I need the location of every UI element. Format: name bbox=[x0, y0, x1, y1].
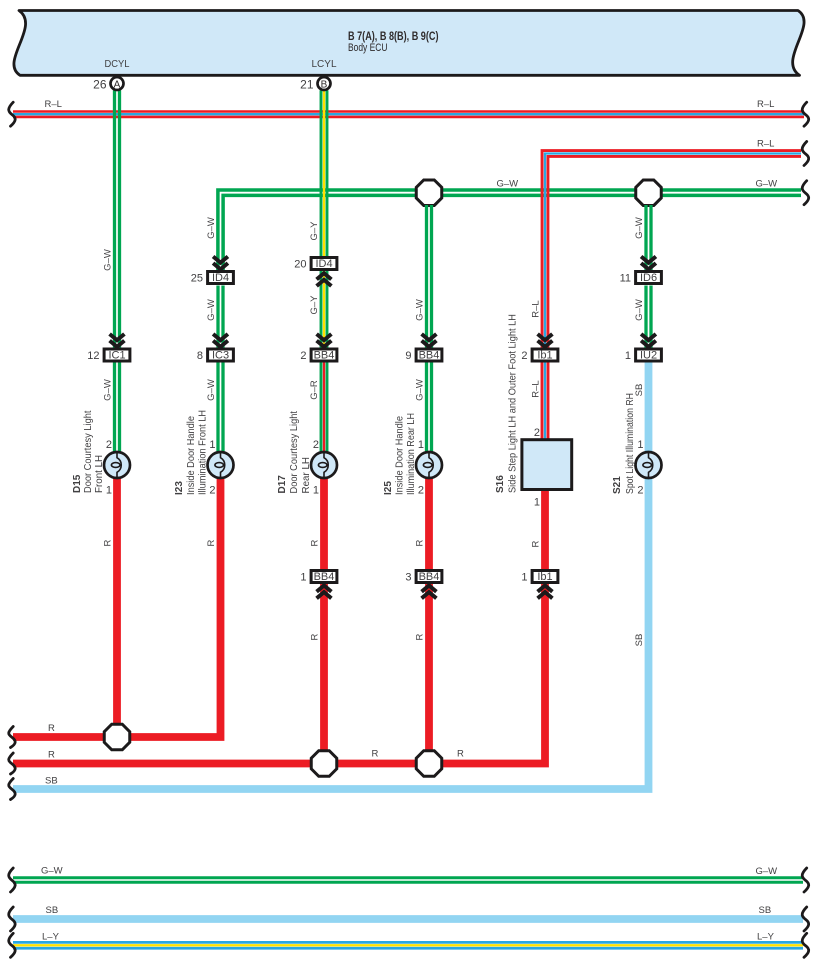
junction octagon on G-W bus at column 6 bbox=[636, 180, 662, 206]
svg-text:SB: SB bbox=[45, 776, 58, 787]
svg-text:12: 12 bbox=[87, 350, 99, 362]
svg-text:Ib1: Ib1 bbox=[537, 571, 552, 583]
wire G-W below IC1 to bulb D15 (column 1) bbox=[113, 363, 116, 452]
svg-text:Inside Door Handle: Inside Door Handle bbox=[186, 415, 197, 495]
arrow into IU2 bbox=[641, 334, 656, 347]
svg-text:L–Y: L–Y bbox=[757, 932, 775, 943]
svg-text:Ib1: Ib1 bbox=[537, 350, 552, 362]
svg-text:R–L: R–L bbox=[757, 139, 774, 150]
svg-text:1: 1 bbox=[106, 485, 112, 497]
svg-text:SB: SB bbox=[634, 634, 645, 647]
svg-text:R: R bbox=[310, 633, 321, 640]
svg-text:R: R bbox=[48, 723, 55, 734]
svg-text:Spot Light Illumination RH: Spot Light Illumination RH bbox=[625, 393, 636, 494]
wire SB below IU2 to bulb S21 (column 6) bbox=[645, 363, 653, 453]
junction octagon on G-W bus at column 4 bbox=[416, 180, 442, 206]
svg-text:IC3: IC3 bbox=[212, 350, 229, 362]
svg-text:ID6: ID6 bbox=[640, 272, 657, 284]
svg-text:G–W: G–W bbox=[415, 299, 426, 321]
svg-text:1: 1 bbox=[300, 572, 306, 584]
svg-text:1: 1 bbox=[418, 439, 424, 451]
svg-text:BB4: BB4 bbox=[314, 350, 335, 362]
svg-text:A: A bbox=[114, 79, 121, 90]
wire L-Y bottom bus bbox=[13, 941, 803, 944]
wire SB bottom bus bbox=[13, 915, 803, 923]
svg-text:11: 11 bbox=[620, 273, 631, 285]
svg-text:Side Step Light LH and Outer F: Side Step Light LH and Outer Foot Light … bbox=[508, 314, 519, 493]
arrow into IC3 bbox=[213, 334, 228, 347]
arrow into Ib1 bbox=[538, 334, 553, 347]
svg-text:R: R bbox=[103, 539, 114, 546]
svg-text:ID4: ID4 bbox=[212, 272, 229, 284]
svg-text:BB4: BB4 bbox=[419, 571, 440, 583]
svg-text:G–W: G–W bbox=[41, 866, 63, 877]
arrow into ID4 bbox=[213, 257, 228, 270]
wire G-W bottom bus bbox=[13, 876, 803, 879]
wire R bus 2: left break to corner up at column 5 bbox=[13, 584, 545, 764]
svg-text:2: 2 bbox=[106, 439, 112, 451]
svg-text:G–Y: G–Y bbox=[309, 221, 320, 241]
svg-text:Door Courtesy Light: Door Courtesy Light bbox=[83, 410, 94, 493]
connector 1 Ib1 (column 5) bbox=[532, 571, 558, 583]
wire R-L from right edge corner down to Ib1 (column 5) bbox=[542, 151, 801, 348]
svg-text:Illumination Front LH: Illumination Front LH bbox=[198, 410, 209, 495]
svg-text:R–L: R–L bbox=[531, 380, 542, 397]
svg-text:LCYL: LCYL bbox=[312, 58, 337, 70]
svg-text:Rear LH: Rear LH bbox=[301, 457, 312, 493]
wire R column 3: bulb D17 down to BB4 and octagon bbox=[320, 478, 328, 570]
svg-text:20: 20 bbox=[294, 259, 306, 271]
svg-text:ID4: ID4 bbox=[315, 258, 332, 270]
svg-text:G–R: G–R bbox=[309, 380, 320, 400]
svg-text:R: R bbox=[48, 750, 55, 761]
svg-text:2: 2 bbox=[637, 485, 643, 497]
svg-text:R–L: R–L bbox=[45, 99, 62, 110]
arrow into BB4 bbox=[422, 334, 437, 347]
svg-text:G–W: G–W bbox=[634, 217, 645, 239]
svg-text:R: R bbox=[415, 633, 426, 640]
svg-text:R–L: R–L bbox=[531, 300, 542, 317]
arrow into BB4 bbox=[317, 334, 332, 347]
arrow up into bottom connector bbox=[317, 586, 332, 599]
bulb I23 Inside Door Handle Illumination Front LH bbox=[208, 452, 234, 478]
svg-text:BB4: BB4 bbox=[419, 350, 440, 362]
wire R column 4: bulb I25 down to BB4 and octagon bbox=[425, 478, 433, 570]
svg-text:26: 26 bbox=[93, 78, 107, 92]
wire R column 1: bulb D15 down to octagon bbox=[113, 478, 121, 737]
svg-text:21: 21 bbox=[300, 78, 314, 92]
svg-text:1: 1 bbox=[637, 439, 643, 451]
wire G-W horizontal bus with corner down at column 2 bbox=[218, 190, 801, 271]
wire G-W from octagon down to ID6 (column 6) bbox=[644, 205, 647, 271]
ECU pin 26 connector A bbox=[111, 77, 124, 90]
svg-text:G–W: G–W bbox=[756, 179, 778, 190]
svg-text:DCYL: DCYL bbox=[105, 58, 130, 70]
svg-text:I25: I25 bbox=[383, 481, 394, 495]
svg-text:S21: S21 bbox=[612, 476, 623, 494]
connector 1 BB4 (column 3) bbox=[311, 571, 337, 583]
svg-text:G–W: G–W bbox=[103, 379, 114, 401]
connector 20 ID4 (column 3) bbox=[311, 258, 337, 270]
svg-text:2: 2 bbox=[313, 439, 319, 451]
arrow into ID6 bbox=[641, 257, 656, 270]
svg-text:Illumination Rear LH: Illumination Rear LH bbox=[406, 413, 417, 495]
svg-text:Door Courtesy Light: Door Courtesy Light bbox=[289, 411, 300, 494]
svg-text:SB: SB bbox=[759, 905, 772, 916]
svg-text:R: R bbox=[372, 749, 379, 760]
component S16 Side Step Light LH and Outer Foot Light LH bbox=[522, 440, 572, 490]
svg-text:R: R bbox=[206, 539, 217, 546]
bulb D17 Door Courtesy Light Rear LH bbox=[311, 452, 337, 478]
svg-text:R: R bbox=[457, 749, 464, 760]
bulb S21 Spot Light Illumination RH bbox=[636, 452, 662, 478]
svg-text:G–W: G–W bbox=[206, 217, 217, 239]
svg-text:B: B bbox=[321, 79, 328, 90]
svg-text:Inside Door Handle: Inside Door Handle bbox=[395, 415, 406, 495]
svg-text:2: 2 bbox=[209, 485, 215, 497]
svg-text:3: 3 bbox=[405, 572, 411, 584]
svg-text:1: 1 bbox=[521, 572, 527, 584]
svg-text:I23: I23 bbox=[174, 481, 185, 495]
bulb I25 Inside Door Handle Illumination Rear LH bbox=[416, 452, 442, 478]
junction octagon on R bus 2 at column 4 bbox=[416, 751, 442, 777]
svg-text:2: 2 bbox=[418, 485, 424, 497]
wire R-L below Ib1 to S16 (column 5) bbox=[541, 363, 544, 440]
svg-text:R: R bbox=[310, 539, 321, 546]
svg-text:1: 1 bbox=[313, 485, 319, 497]
svg-text:G–Y: G–Y bbox=[309, 295, 320, 315]
svg-text:9: 9 bbox=[405, 350, 411, 362]
wire G-W from ECU pin A down to IC1 (column 1) bbox=[113, 90, 116, 347]
svg-text:25: 25 bbox=[191, 273, 203, 285]
connector 3 BB4 (column 4) bbox=[416, 571, 442, 583]
wire R bus 1: left break to corner up at column 2 bbox=[13, 478, 221, 737]
svg-text:G–W: G–W bbox=[756, 866, 778, 877]
svg-text:2: 2 bbox=[521, 350, 527, 362]
svg-text:G–W: G–W bbox=[103, 249, 114, 271]
svg-text:G–W: G–W bbox=[206, 379, 217, 401]
junction octagon on R bus 1 at column 1 bbox=[104, 724, 130, 750]
svg-text:L–Y: L–Y bbox=[42, 932, 60, 943]
svg-text:D15: D15 bbox=[72, 474, 83, 493]
svg-text:1: 1 bbox=[625, 350, 631, 362]
svg-text:2: 2 bbox=[534, 427, 540, 439]
ECU block B7/B8/B9 Body ECU bbox=[14, 11, 804, 76]
svg-text:BB4: BB4 bbox=[314, 571, 335, 583]
svg-text:S16: S16 bbox=[495, 475, 506, 493]
wire G-Y from ECU pin B down to ID4 (column 3) bbox=[320, 90, 323, 256]
wire SB: bulb S21 down, corner left to break bbox=[13, 478, 649, 789]
wire R column 5: S16 down to Ib1 bbox=[541, 490, 549, 570]
svg-text:B 7(A), B 8(B), B 9(C): B 7(A), B 8(B), B 9(C) bbox=[348, 29, 439, 43]
svg-text:G–W: G–W bbox=[497, 179, 519, 190]
svg-text:R: R bbox=[531, 540, 542, 547]
svg-text:R: R bbox=[415, 539, 426, 546]
junction octagon on R bus 2 at column 3 bbox=[311, 751, 337, 777]
svg-text:R–L: R–L bbox=[757, 99, 774, 110]
svg-text:2: 2 bbox=[300, 350, 306, 362]
arrow out of ID4 upward bbox=[317, 273, 332, 286]
bulb D15 Door Courtesy Light Front LH bbox=[104, 452, 130, 478]
wire R-L horizontal top (full width) bbox=[13, 110, 804, 113]
wire G-R below BB4 to bulb D17 (column 3) bbox=[320, 363, 323, 452]
ECU pin 21 connector B bbox=[318, 77, 331, 90]
svg-text:G–W: G–W bbox=[634, 299, 645, 321]
svg-text:SB: SB bbox=[46, 905, 59, 916]
arrow up into bottom connector bbox=[538, 586, 553, 599]
svg-text:Front LH: Front LH bbox=[94, 455, 105, 493]
svg-text:D17: D17 bbox=[277, 475, 288, 494]
wire G-W from octagon down to BB4 (column 4) bbox=[425, 205, 428, 348]
svg-text:IU2: IU2 bbox=[640, 350, 657, 362]
arrow into IC1 bbox=[110, 334, 125, 347]
svg-text:8: 8 bbox=[197, 350, 203, 362]
arrow up into bottom connector bbox=[422, 586, 437, 599]
svg-text:IC1: IC1 bbox=[108, 350, 125, 362]
svg-text:1: 1 bbox=[534, 497, 540, 509]
svg-text:Body ECU: Body ECU bbox=[348, 42, 388, 54]
svg-text:G–W: G–W bbox=[415, 379, 426, 401]
svg-text:G–W: G–W bbox=[206, 299, 217, 321]
svg-text:1: 1 bbox=[209, 439, 215, 451]
wire G-Y between ID4 and BB4 (column 3) bbox=[320, 271, 323, 348]
